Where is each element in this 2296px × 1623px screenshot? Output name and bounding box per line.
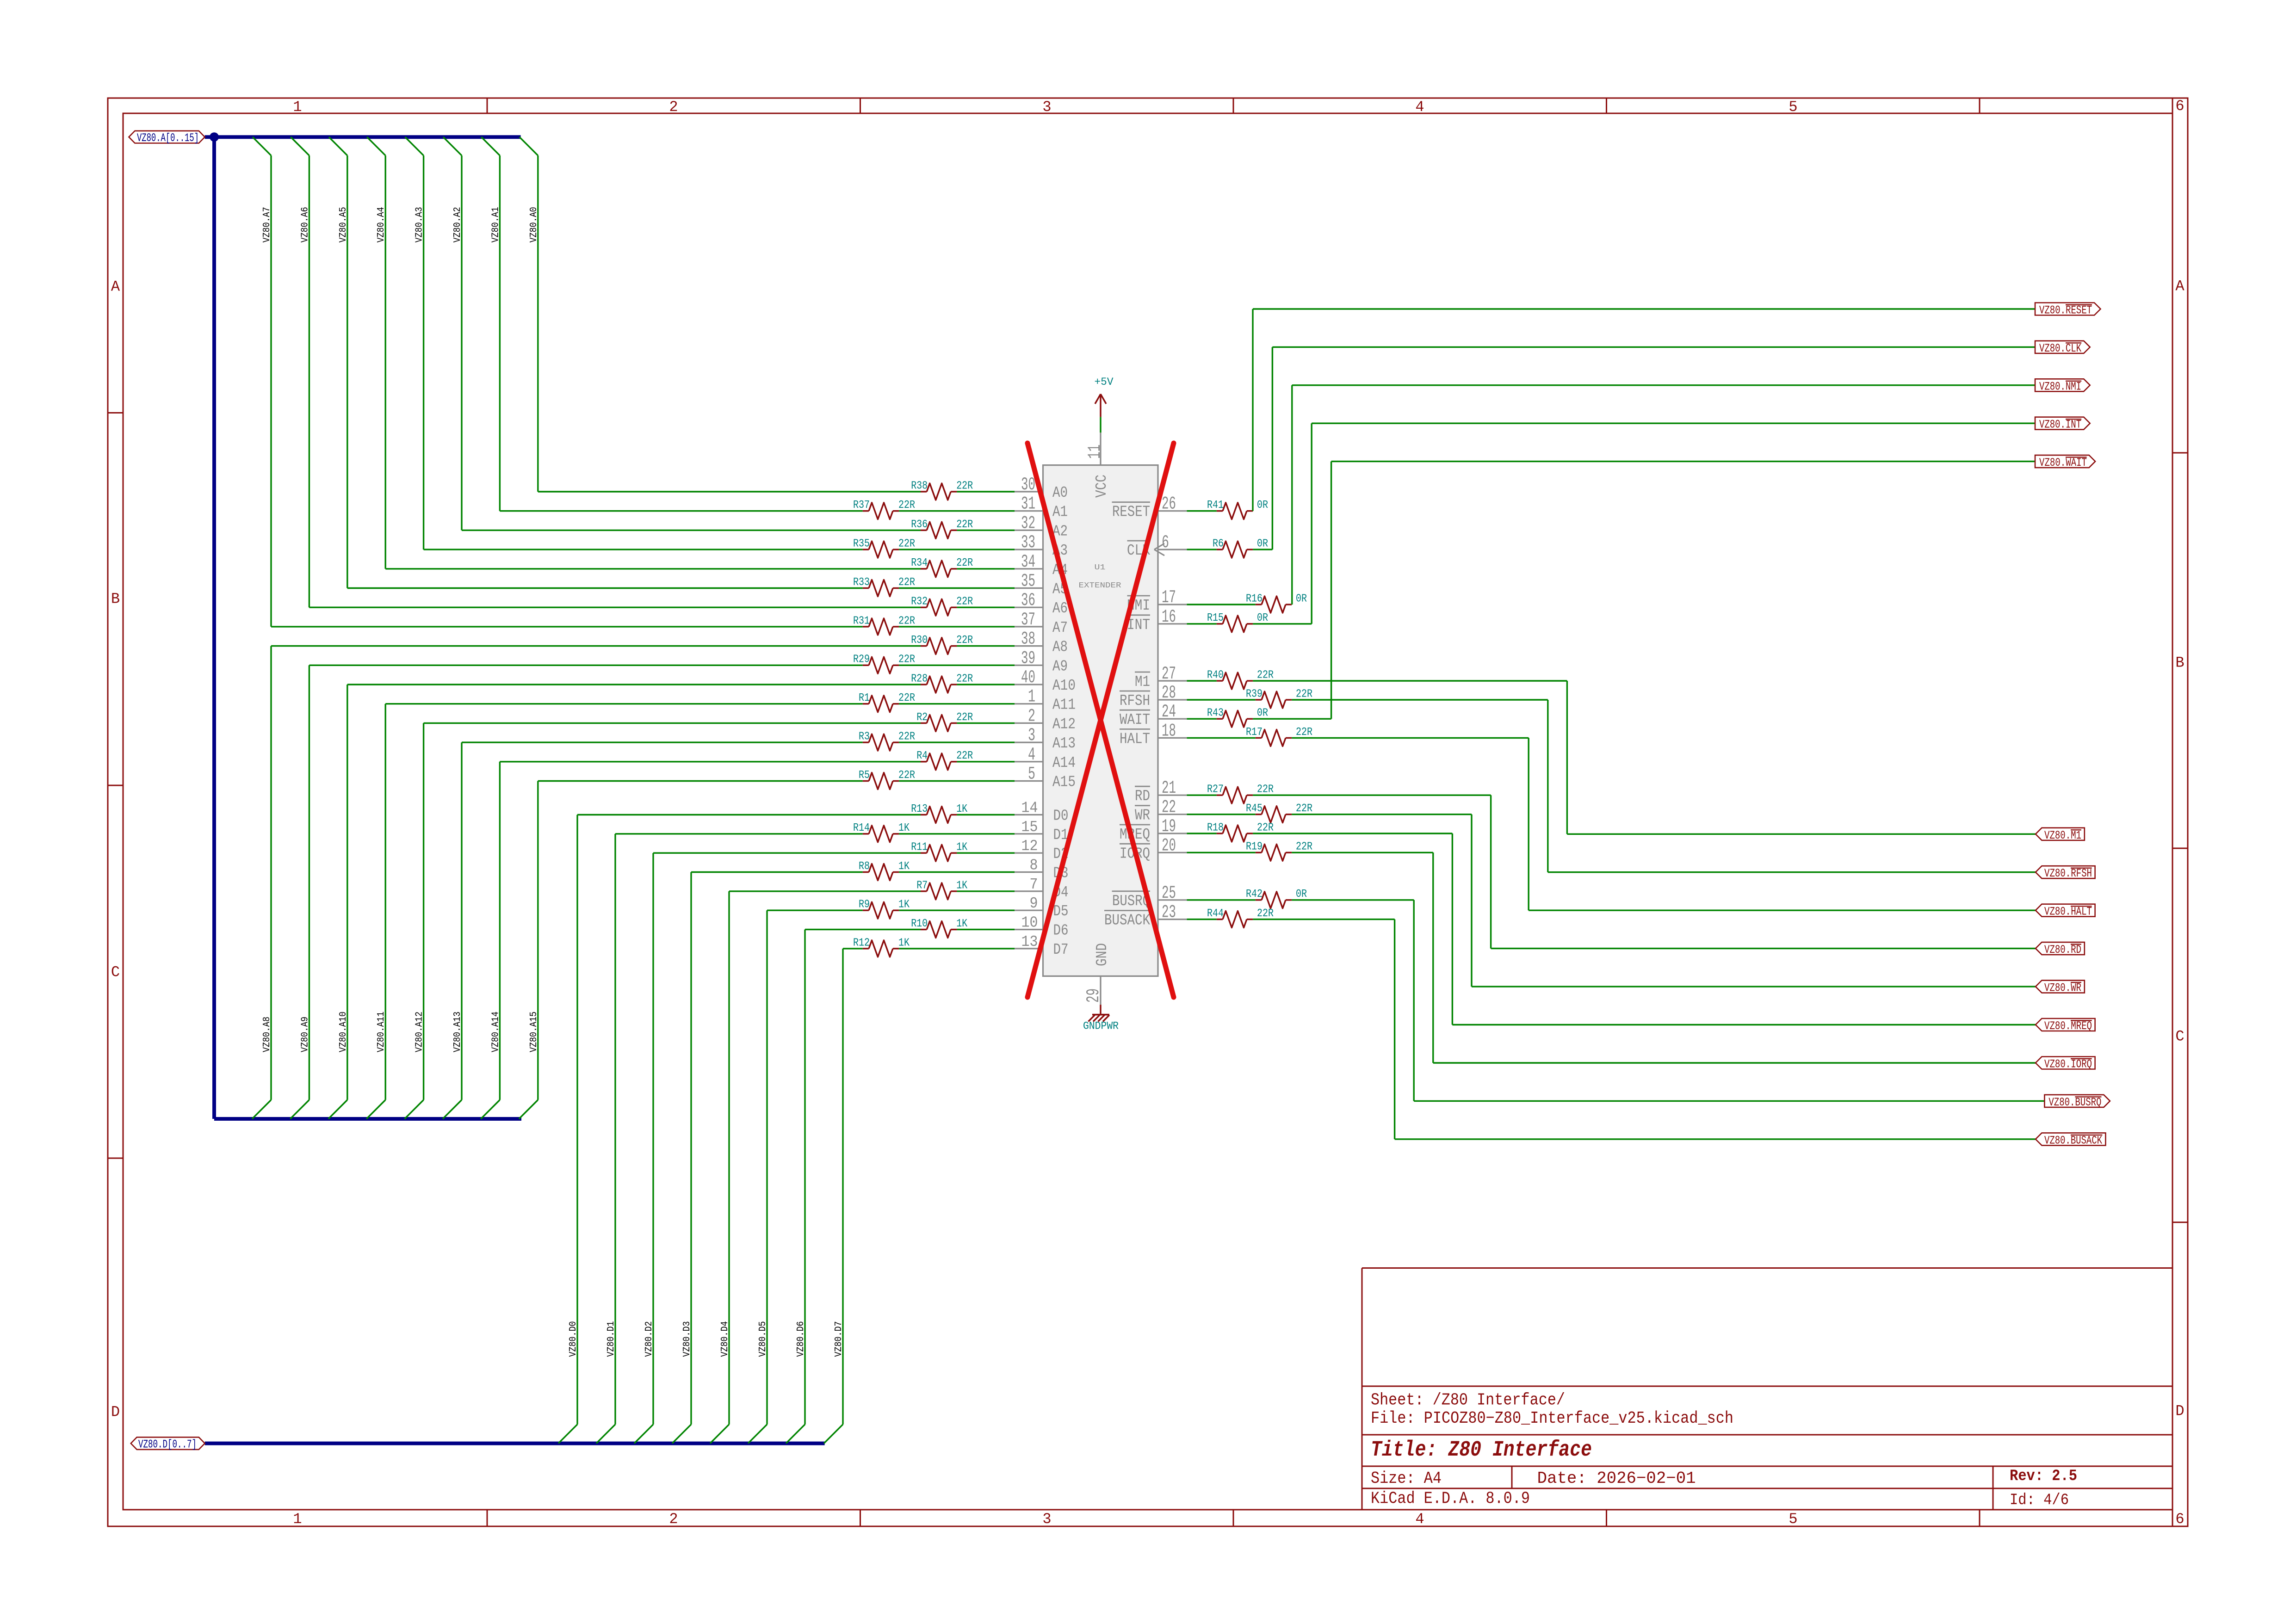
svg-text:1K: 1K	[956, 879, 967, 892]
svg-text:VZ80.D4: VZ80.D4	[720, 1321, 730, 1357]
svg-text:22R: 22R	[956, 711, 973, 724]
svg-text:R28: R28	[911, 673, 928, 685]
svg-text:1K: 1K	[898, 822, 910, 834]
svg-text:A11: A11	[1052, 697, 1076, 714]
svg-text:22R: 22R	[898, 731, 915, 743]
svg-text:R17: R17	[1246, 726, 1262, 739]
svg-text:VZ80.RFSH: VZ80.RFSH	[2044, 867, 2092, 880]
svg-text:Size: A4: Size: A4	[1371, 1469, 1442, 1488]
svg-text:VZ80.A3: VZ80.A3	[415, 207, 425, 242]
svg-text:37: 37	[1021, 610, 1035, 630]
svg-text:VZ80.A8: VZ80.A8	[262, 1017, 272, 1052]
svg-text:R38: R38	[911, 480, 928, 492]
svg-text:A: A	[2175, 278, 2185, 295]
svg-text:D0: D0	[1053, 808, 1069, 825]
svg-text:Date: 2026−02−01: Date: 2026−02−01	[1537, 1469, 1696, 1488]
svg-text:13: 13	[1021, 933, 1038, 950]
svg-text:2: 2	[669, 99, 678, 116]
svg-text:VZ80.RD: VZ80.RD	[2044, 943, 2081, 957]
svg-text:R15: R15	[1207, 612, 1224, 624]
svg-text:26: 26	[1162, 494, 1176, 514]
svg-text:22R: 22R	[956, 673, 973, 685]
svg-text:WAIT: WAIT	[1120, 711, 1150, 728]
svg-text:Id: 4/6: Id: 4/6	[2010, 1492, 2069, 1509]
svg-text:VZ80.WR: VZ80.WR	[2044, 981, 2081, 995]
svg-text:R34: R34	[911, 557, 928, 569]
svg-text:22R: 22R	[956, 557, 973, 569]
svg-text:A12: A12	[1052, 716, 1076, 733]
svg-text:Title: Z80 Interface: Title: Z80 Interface	[1371, 1438, 1592, 1463]
svg-text:5: 5	[1028, 764, 1035, 784]
svg-text:0R: 0R	[1257, 499, 1268, 512]
svg-text:HALT: HALT	[1120, 730, 1150, 747]
svg-text:R11: R11	[911, 841, 928, 854]
svg-text:22R: 22R	[1296, 802, 1312, 815]
svg-text:28: 28	[1162, 683, 1176, 703]
svg-text:D: D	[111, 1404, 120, 1421]
svg-text:R31: R31	[853, 615, 870, 627]
svg-text:VZ80.A15: VZ80.A15	[529, 1012, 539, 1052]
svg-text:VZ80.A10: VZ80.A10	[338, 1012, 349, 1052]
svg-text:A13: A13	[1052, 735, 1076, 752]
svg-text:7: 7	[1030, 876, 1038, 893]
svg-text:C: C	[2175, 1028, 2184, 1045]
svg-text:32: 32	[1021, 513, 1035, 533]
svg-text:B: B	[2175, 654, 2184, 672]
svg-text:R33: R33	[853, 576, 870, 589]
svg-text:VZ80.WAIT: VZ80.WAIT	[2039, 456, 2087, 469]
svg-text:A6: A6	[1052, 600, 1068, 617]
svg-text:U1: U1	[1095, 563, 1106, 572]
svg-text:1K: 1K	[956, 803, 967, 815]
svg-text:VZ80.A13: VZ80.A13	[452, 1012, 463, 1052]
svg-text:VZ80.A14: VZ80.A14	[490, 1012, 501, 1052]
svg-text:VZ80.D5: VZ80.D5	[758, 1321, 768, 1357]
svg-text:2: 2	[1028, 706, 1035, 726]
svg-text:R29: R29	[853, 654, 870, 666]
svg-text:R16: R16	[1246, 592, 1262, 605]
svg-text:VZ80.A7: VZ80.A7	[262, 207, 272, 242]
svg-text:22: 22	[1162, 797, 1176, 818]
svg-text:VZ80.CLK: VZ80.CLK	[2039, 342, 2081, 355]
svg-text:+5V: +5V	[1095, 376, 1114, 388]
svg-text:R13: R13	[911, 803, 928, 815]
svg-text:22R: 22R	[898, 499, 915, 512]
svg-text:File: PICOZ80−Z80_Interface_v2: File: PICOZ80−Z80_Interface_v25.kicad_sc…	[1371, 1409, 1733, 1428]
svg-text:40: 40	[1021, 667, 1035, 688]
svg-text:VZ80.INT: VZ80.INT	[2039, 418, 2081, 432]
svg-text:R12: R12	[853, 937, 870, 949]
svg-text:VZ80.A11: VZ80.A11	[376, 1012, 387, 1052]
svg-text:30: 30	[1021, 475, 1035, 495]
svg-text:0R: 0R	[1296, 888, 1307, 901]
svg-text:R1: R1	[859, 692, 870, 704]
svg-text:VZ80.D0: VZ80.D0	[568, 1321, 579, 1357]
svg-text:22R: 22R	[956, 518, 973, 531]
svg-text:11: 11	[1085, 444, 1105, 459]
svg-text:VZ80.NMI: VZ80.NMI	[2039, 380, 2081, 393]
svg-text:A10: A10	[1052, 677, 1076, 694]
svg-text:B: B	[111, 591, 120, 608]
svg-text:INT: INT	[1127, 617, 1150, 634]
svg-text:22R: 22R	[956, 480, 973, 492]
svg-text:D6: D6	[1053, 922, 1069, 939]
svg-text:RFSH: RFSH	[1120, 692, 1150, 710]
svg-text:25: 25	[1162, 883, 1176, 903]
svg-text:R44: R44	[1207, 907, 1224, 920]
svg-text:33: 33	[1021, 532, 1035, 553]
svg-text:GNDPWR: GNDPWR	[1083, 1020, 1119, 1032]
svg-text:22R: 22R	[898, 692, 915, 704]
svg-text:VCC: VCC	[1093, 475, 1110, 498]
svg-text:A1: A1	[1052, 504, 1068, 521]
svg-text:8: 8	[1030, 857, 1038, 874]
svg-text:22R: 22R	[898, 769, 915, 782]
svg-text:19: 19	[1162, 816, 1176, 837]
svg-text:39: 39	[1021, 648, 1035, 668]
svg-text:BUSACK: BUSACK	[1104, 912, 1150, 929]
svg-text:22R: 22R	[1296, 841, 1312, 853]
svg-text:VZ80.RESET: VZ80.RESET	[2039, 304, 2092, 317]
svg-text:VZ80.M1: VZ80.M1	[2044, 829, 2081, 842]
svg-text:R41: R41	[1207, 499, 1224, 512]
svg-text:R8: R8	[859, 860, 870, 873]
svg-text:3: 3	[1042, 99, 1051, 116]
svg-text:R43: R43	[1207, 707, 1224, 720]
svg-text:4: 4	[1415, 1511, 1424, 1528]
svg-text:1K: 1K	[956, 841, 967, 854]
svg-text:VZ80.A2: VZ80.A2	[452, 207, 463, 242]
svg-text:R27: R27	[1207, 784, 1224, 796]
svg-text:WR: WR	[1135, 807, 1150, 824]
svg-text:VZ80.D2: VZ80.D2	[644, 1321, 655, 1357]
svg-text:R42: R42	[1246, 888, 1262, 901]
svg-text:C: C	[111, 964, 120, 981]
svg-text:14: 14	[1021, 800, 1038, 817]
svg-text:6: 6	[2175, 1511, 2184, 1528]
svg-text:16: 16	[1162, 607, 1176, 627]
svg-text:VZ80.A9: VZ80.A9	[300, 1017, 310, 1052]
svg-text:R7: R7	[916, 879, 928, 892]
svg-text:R30: R30	[911, 634, 928, 647]
svg-text:15: 15	[1021, 819, 1038, 836]
svg-text:R40: R40	[1207, 669, 1224, 681]
svg-text:12: 12	[1021, 838, 1038, 855]
svg-text:R14: R14	[853, 822, 870, 834]
svg-text:29: 29	[1083, 988, 1104, 1003]
svg-text:R6: R6	[1213, 538, 1224, 550]
svg-text:VZ80.D3: VZ80.D3	[682, 1321, 693, 1357]
svg-text:R10: R10	[911, 918, 928, 930]
svg-text:M1: M1	[1135, 673, 1150, 691]
svg-text:A9: A9	[1052, 658, 1068, 675]
svg-text:6: 6	[1162, 532, 1169, 553]
svg-text:VZ80.MREQ: VZ80.MREQ	[2044, 1019, 2092, 1033]
svg-text:VZ80.BUSRQ: VZ80.BUSRQ	[2048, 1096, 2101, 1109]
svg-text:R9: R9	[859, 899, 870, 911]
svg-text:A: A	[111, 278, 120, 296]
svg-text:36: 36	[1021, 590, 1035, 611]
svg-text:A15: A15	[1052, 774, 1076, 791]
svg-text:2: 2	[669, 1511, 678, 1528]
svg-text:35: 35	[1021, 571, 1035, 592]
svg-text:22R: 22R	[956, 750, 973, 762]
svg-text:22R: 22R	[898, 538, 915, 550]
svg-text:VZ80.D6: VZ80.D6	[796, 1321, 806, 1357]
svg-text:Rev: 2.5: Rev: 2.5	[2010, 1468, 2077, 1485]
svg-text:R5: R5	[859, 769, 870, 782]
svg-text:38: 38	[1021, 629, 1035, 649]
svg-text:VZ80.A[0..15]: VZ80.A[0..15]	[137, 131, 199, 145]
svg-text:A7: A7	[1052, 619, 1068, 636]
svg-text:23: 23	[1162, 902, 1176, 923]
svg-text:A14: A14	[1052, 754, 1076, 771]
svg-text:R36: R36	[911, 518, 928, 531]
svg-text:VZ80.HALT: VZ80.HALT	[2044, 905, 2092, 919]
svg-text:22R: 22R	[898, 615, 915, 627]
svg-text:VZ80.D[0..7]: VZ80.D[0..7]	[138, 1438, 197, 1451]
svg-text:22R: 22R	[898, 576, 915, 589]
svg-text:1: 1	[293, 99, 302, 116]
svg-text:22R: 22R	[1257, 821, 1274, 834]
svg-text:5: 5	[1789, 1511, 1797, 1528]
svg-text:R37: R37	[853, 499, 870, 512]
svg-text:22R: 22R	[1257, 669, 1274, 681]
svg-text:VZ80.A5: VZ80.A5	[338, 207, 349, 242]
svg-text:1K: 1K	[898, 899, 910, 911]
svg-text:VZ80.A1: VZ80.A1	[490, 207, 501, 242]
svg-text:1K: 1K	[898, 937, 910, 949]
svg-text:4: 4	[1028, 745, 1035, 765]
svg-text:0R: 0R	[1296, 592, 1307, 605]
svg-text:21: 21	[1162, 778, 1176, 798]
svg-text:24: 24	[1162, 702, 1176, 722]
svg-text:R45: R45	[1246, 802, 1262, 815]
svg-text:18: 18	[1162, 721, 1176, 741]
svg-text:D7: D7	[1053, 941, 1069, 958]
svg-text:VZ80.IORQ: VZ80.IORQ	[2044, 1058, 2092, 1071]
svg-text:VZ80.A6: VZ80.A6	[300, 207, 310, 242]
svg-text:1: 1	[1028, 687, 1035, 707]
svg-text:22R: 22R	[1257, 784, 1274, 796]
svg-text:17: 17	[1162, 587, 1176, 608]
svg-text:27: 27	[1162, 664, 1176, 684]
svg-text:RESET: RESET	[1112, 504, 1150, 521]
svg-text:22R: 22R	[1257, 907, 1274, 920]
svg-text:R32: R32	[911, 596, 928, 608]
svg-text:34: 34	[1021, 552, 1035, 572]
svg-text:VZ80.D1: VZ80.D1	[606, 1321, 617, 1357]
svg-text:VZ80.BUSACK: VZ80.BUSACK	[2044, 1134, 2102, 1147]
svg-text:A8: A8	[1052, 639, 1068, 656]
svg-text:1K: 1K	[898, 860, 910, 873]
svg-text:0R: 0R	[1257, 707, 1268, 720]
svg-text:9: 9	[1030, 895, 1038, 912]
svg-text:EXTENDER: EXTENDER	[1079, 581, 1121, 590]
svg-text:1K: 1K	[956, 918, 967, 930]
svg-text:D: D	[2175, 1403, 2184, 1420]
svg-text:R39: R39	[1246, 688, 1262, 700]
svg-text:R18: R18	[1207, 821, 1224, 834]
svg-text:GND: GND	[1094, 943, 1111, 966]
svg-text:22R: 22R	[1296, 726, 1312, 739]
svg-text:3: 3	[1028, 725, 1035, 746]
svg-text:22R: 22R	[956, 634, 973, 647]
svg-text:5: 5	[1789, 99, 1797, 116]
svg-text:R3: R3	[859, 731, 870, 743]
svg-text:R19: R19	[1246, 841, 1262, 853]
svg-text:31: 31	[1021, 494, 1035, 514]
svg-text:A0: A0	[1052, 484, 1068, 501]
svg-text:22R: 22R	[1296, 688, 1312, 700]
svg-text:D5: D5	[1053, 903, 1069, 920]
svg-text:RD: RD	[1135, 788, 1150, 805]
svg-text:0R: 0R	[1257, 612, 1268, 624]
svg-text:20: 20	[1162, 835, 1176, 856]
svg-text:KiCad E.D.A. 8.0.9: KiCad E.D.A. 8.0.9	[1371, 1489, 1530, 1508]
svg-text:22R: 22R	[956, 596, 973, 608]
svg-text:1: 1	[293, 1511, 302, 1528]
svg-text:VZ80.A12: VZ80.A12	[415, 1012, 425, 1052]
svg-text:10: 10	[1021, 914, 1038, 932]
svg-text:6: 6	[2175, 98, 2184, 115]
svg-text:VZ80.A4: VZ80.A4	[376, 207, 387, 242]
svg-text:VZ80.A0: VZ80.A0	[529, 207, 539, 242]
svg-text:3: 3	[1042, 1511, 1051, 1528]
svg-text:R4: R4	[916, 750, 928, 762]
svg-text:R35: R35	[853, 538, 870, 550]
svg-text:VZ80.D7: VZ80.D7	[834, 1321, 844, 1357]
svg-text:Sheet: /Z80 Interface/: Sheet: /Z80 Interface/	[1371, 1390, 1565, 1409]
svg-text:22R: 22R	[898, 654, 915, 666]
svg-text:R2: R2	[916, 711, 928, 724]
svg-text:0R: 0R	[1257, 538, 1268, 550]
svg-text:4: 4	[1415, 99, 1424, 116]
